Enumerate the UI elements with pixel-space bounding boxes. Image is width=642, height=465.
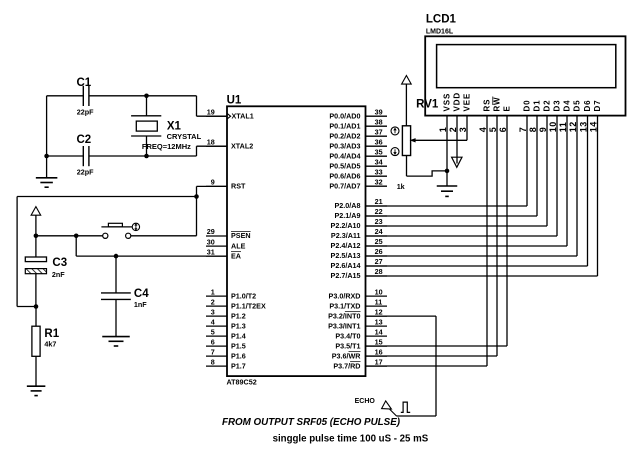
svg-text:9: 9 — [211, 178, 215, 187]
svg-text:25: 25 — [375, 237, 383, 246]
svg-text:21: 21 — [375, 197, 383, 206]
svg-text:P1.2: P1.2 — [231, 311, 246, 320]
svg-text:LCD1: LCD1 — [426, 13, 457, 25]
svg-text:P1.0/T2: P1.0/T2 — [231, 291, 256, 300]
svg-text:VSS: VSS — [442, 93, 451, 112]
svg-text:31: 31 — [207, 247, 215, 256]
svg-text:D4: D4 — [562, 99, 571, 111]
svg-text:2: 2 — [211, 297, 215, 306]
svg-text:P0.5/AD5: P0.5/AD5 — [329, 161, 360, 170]
svg-text:39: 39 — [375, 107, 383, 116]
svg-text:14: 14 — [375, 327, 383, 336]
svg-text:LMD16L: LMD16L — [426, 28, 454, 35]
svg-text:P3.1/TXD: P3.1/TXD — [329, 301, 360, 310]
svg-text:1k: 1k — [397, 182, 405, 191]
svg-text:P1.6: P1.6 — [231, 351, 246, 360]
svg-text:C2: C2 — [77, 134, 92, 146]
svg-text:P2.6/A14: P2.6/A14 — [331, 261, 361, 270]
svg-text:P0.7/AD7: P0.7/AD7 — [329, 181, 360, 190]
svg-text:7: 7 — [211, 347, 215, 356]
svg-text:PSEN: PSEN — [231, 231, 251, 240]
svg-text:26: 26 — [375, 247, 383, 256]
svg-text:R1: R1 — [44, 328, 59, 340]
svg-text:VEE: VEE — [462, 93, 471, 112]
svg-text:C3: C3 — [52, 257, 67, 269]
svg-text:P2.3/A11: P2.3/A11 — [331, 231, 361, 240]
svg-text:P0.4/AD4: P0.4/AD4 — [329, 151, 360, 160]
svg-text:RST: RST — [231, 182, 246, 191]
svg-text:37: 37 — [375, 127, 383, 136]
svg-text:23: 23 — [375, 217, 383, 226]
svg-text:singgle pulse time 100 uS - 25: singgle pulse time 100 uS - 25 mS — [273, 434, 429, 445]
svg-text:EA: EA — [231, 251, 241, 260]
svg-text:1nF: 1nF — [134, 300, 147, 309]
svg-text:P3.3/INT1: P3.3/INT1 — [328, 321, 360, 330]
svg-text:P3.2/INT0: P3.2/INT0 — [328, 311, 360, 320]
svg-text:27: 27 — [375, 257, 383, 266]
svg-text:D0: D0 — [522, 99, 531, 111]
svg-text:P2.5/A13: P2.5/A13 — [331, 251, 361, 260]
svg-text:RV1: RV1 — [416, 99, 439, 111]
svg-text:3: 3 — [458, 127, 468, 133]
svg-text:8: 8 — [211, 357, 215, 366]
svg-text:6: 6 — [211, 337, 215, 346]
svg-text:E: E — [502, 105, 511, 111]
svg-text:P3.0/RXD: P3.0/RXD — [329, 291, 361, 300]
svg-text:P3.4/T0: P3.4/T0 — [335, 331, 360, 340]
svg-text:10: 10 — [548, 121, 558, 132]
svg-text:RS: RS — [482, 99, 491, 112]
svg-text:8: 8 — [528, 127, 538, 133]
svg-text:9: 9 — [538, 127, 548, 133]
svg-text:D5: D5 — [572, 99, 581, 111]
svg-text:P2.4/A12: P2.4/A12 — [331, 241, 361, 250]
svg-text:P1.3: P1.3 — [231, 321, 246, 330]
svg-text:C4: C4 — [134, 288, 149, 300]
svg-text:ALE: ALE — [231, 241, 246, 250]
svg-text:6: 6 — [498, 127, 508, 133]
svg-text:1: 1 — [438, 127, 448, 133]
svg-text:34: 34 — [375, 157, 383, 166]
svg-text:19: 19 — [207, 107, 215, 116]
svg-text:17: 17 — [375, 357, 383, 366]
svg-text:36: 36 — [375, 137, 383, 146]
svg-text:12: 12 — [568, 121, 578, 132]
svg-text:D2: D2 — [542, 99, 551, 111]
svg-text:AT89C52: AT89C52 — [227, 378, 257, 387]
svg-text:7: 7 — [518, 127, 528, 133]
svg-text:P3.7/RD: P3.7/RD — [333, 361, 360, 370]
svg-text:XTAL1: XTAL1 — [232, 111, 254, 120]
svg-text:13: 13 — [375, 317, 383, 326]
svg-text:FROM OUTPUT SRF05 (ECHO PULSE): FROM OUTPUT SRF05 (ECHO PULSE) — [222, 417, 400, 428]
svg-text:P0.1/AD1: P0.1/AD1 — [329, 121, 360, 130]
svg-text:13: 13 — [578, 121, 588, 132]
svg-text:P2.2/A10: P2.2/A10 — [331, 221, 361, 230]
svg-text:22pF: 22pF — [77, 107, 94, 116]
svg-text:22pF: 22pF — [77, 168, 94, 177]
svg-text:11: 11 — [558, 122, 568, 133]
svg-text:D1: D1 — [532, 99, 541, 111]
svg-text:24: 24 — [375, 227, 383, 236]
svg-text:C1: C1 — [77, 77, 92, 89]
svg-text:P1.5: P1.5 — [231, 341, 246, 350]
svg-text:1: 1 — [211, 287, 215, 296]
svg-text:XTAL2: XTAL2 — [231, 141, 253, 150]
svg-text:4: 4 — [478, 127, 488, 133]
svg-text:P2.7/A15: P2.7/A15 — [331, 271, 361, 280]
svg-text:P2.0/A8: P2.0/A8 — [335, 201, 361, 210]
svg-text:38: 38 — [375, 117, 383, 126]
svg-text:35: 35 — [375, 147, 383, 156]
svg-text:P1.7: P1.7 — [231, 361, 246, 370]
svg-text:P0.3/AD3: P0.3/AD3 — [329, 141, 360, 150]
svg-text:ECHO: ECHO — [355, 398, 376, 405]
svg-text:P0.0/AD0: P0.0/AD0 — [329, 111, 360, 120]
svg-text:33: 33 — [375, 167, 383, 176]
svg-text:P3.5/T1: P3.5/T1 — [335, 341, 360, 350]
svg-text:10: 10 — [375, 287, 383, 296]
svg-text:5: 5 — [488, 127, 498, 133]
svg-text:U1: U1 — [227, 95, 242, 107]
svg-text:2nF: 2nF — [52, 270, 65, 279]
svg-text:32: 32 — [375, 177, 383, 186]
svg-text:12: 12 — [375, 307, 383, 316]
svg-text:X1: X1 — [167, 121, 182, 133]
svg-text:D6: D6 — [583, 99, 592, 111]
svg-text:P0.2/AD2: P0.2/AD2 — [329, 131, 360, 140]
svg-text:RW: RW — [492, 97, 501, 112]
svg-text:11: 11 — [375, 297, 383, 306]
svg-text:P3.6/WR: P3.6/WR — [332, 351, 362, 360]
svg-text:30: 30 — [207, 237, 215, 246]
svg-text:D3: D3 — [552, 99, 561, 111]
svg-text:3: 3 — [211, 307, 215, 316]
svg-text:29: 29 — [207, 227, 215, 236]
svg-text:2: 2 — [448, 127, 458, 133]
svg-text:CRYSTAL: CRYSTAL — [167, 132, 202, 141]
svg-text:14: 14 — [588, 121, 598, 132]
svg-text:28: 28 — [375, 267, 383, 276]
svg-text:4: 4 — [211, 317, 215, 326]
svg-text:D7: D7 — [593, 99, 602, 111]
svg-text:22: 22 — [375, 207, 383, 216]
svg-text:5: 5 — [211, 327, 215, 336]
svg-text:18: 18 — [207, 137, 215, 146]
svg-text:FREQ=12MHz: FREQ=12MHz — [142, 142, 191, 151]
svg-text:P2.1/A9: P2.1/A9 — [335, 211, 361, 220]
svg-text:P0.6/AD6: P0.6/AD6 — [329, 171, 360, 180]
svg-text:16: 16 — [375, 347, 383, 356]
svg-text:VDD: VDD — [452, 92, 461, 112]
svg-text:P1.4: P1.4 — [231, 331, 246, 340]
svg-text:4k7: 4k7 — [44, 339, 56, 348]
svg-text:P1.1/T2EX: P1.1/T2EX — [231, 301, 266, 310]
svg-text:15: 15 — [375, 337, 383, 346]
